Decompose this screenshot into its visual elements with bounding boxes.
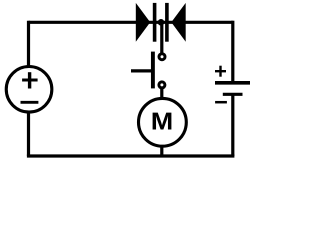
pushbutton switch: bottom contact	[159, 82, 165, 88]
diode D-right (anode right, cathode bar left)	[167, 3, 186, 42]
junction node (dot between diodes)	[158, 19, 165, 26]
wire: right vertical upper	[231, 21, 234, 83]
battery: positive (long) plate	[215, 81, 250, 85]
pushbutton switch: top contact	[159, 54, 165, 60]
wire: bottom rail	[27, 154, 235, 157]
pushbutton switch: plunger bar	[151, 52, 155, 89]
motor M letter	[153, 113, 172, 130]
wire: right vertical lower	[231, 94, 234, 156]
wire: switch bottom contact to motor	[160, 88, 163, 100]
battery minus label	[215, 101, 227, 104]
wire: top rail	[29, 21, 233, 24]
voltage source (circle with polarity)	[6, 67, 52, 113]
diode D-left (anode left, cathode bar right)	[136, 3, 155, 42]
wire: left vertical	[27, 21, 30, 156]
battery: negative (short) plate	[223, 93, 243, 96]
battery plus label	[215, 66, 226, 77]
pushbutton switch: actuator arm	[131, 69, 153, 72]
voltage source minus label	[21, 101, 39, 104]
wire: center branch (junction to switch top contact)	[160, 22, 163, 53]
motor M (circle)	[139, 98, 187, 146]
voltage source plus label	[22, 72, 37, 88]
wire: motor to bottom rail	[160, 145, 163, 156]
